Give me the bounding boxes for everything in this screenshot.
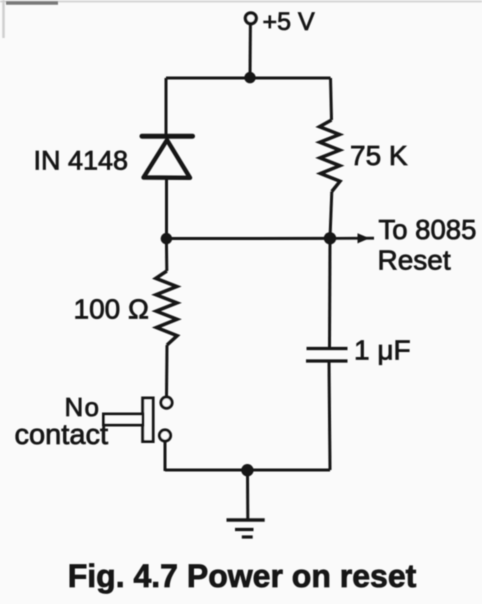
diode D1 IN 4148 xyxy=(34,136,193,178)
resistor R1 100 Ω xyxy=(74,239,178,398)
svg-text:Reset: Reset xyxy=(378,245,451,276)
node B junction right xyxy=(324,232,336,244)
svg-text:Fig. 4.7 Power on reset: Fig. 4.7 Power on reset xyxy=(68,558,417,594)
output arrow To 8085 Reset xyxy=(334,214,476,276)
wire ground stub xyxy=(246,470,249,520)
svg-text:IN 4148: IN 4148 xyxy=(34,146,129,176)
wire left vertical to diode xyxy=(165,78,168,137)
ground xyxy=(227,520,265,537)
svg-text:+5 V: +5 V xyxy=(263,8,315,36)
svg-text:100 Ω: 100 Ω xyxy=(74,294,149,325)
node A junction left xyxy=(161,233,172,244)
resistor R2 75 K xyxy=(320,78,408,238)
junction node top xyxy=(244,72,255,83)
wire top rail xyxy=(166,77,331,80)
svg-text:No: No xyxy=(65,392,101,422)
wire bottom rail xyxy=(165,469,330,472)
wire middle rail xyxy=(167,237,331,240)
svg-text:To 8085: To 8085 xyxy=(379,214,477,245)
wire diode to node A xyxy=(165,179,168,239)
wire switch to bottom rail xyxy=(164,441,167,472)
switch S1 push button (No contact) xyxy=(15,392,173,451)
svg-text:1 μF: 1 μF xyxy=(354,335,411,366)
node C junction bottom xyxy=(241,464,253,476)
svg-text:75 K: 75 K xyxy=(350,140,408,171)
node VCC terminal +5 V xyxy=(245,8,315,36)
capacitor C1 1 μF xyxy=(306,238,411,470)
svg-text:contact: contact xyxy=(15,419,109,451)
wire +5V stub xyxy=(249,24,252,79)
